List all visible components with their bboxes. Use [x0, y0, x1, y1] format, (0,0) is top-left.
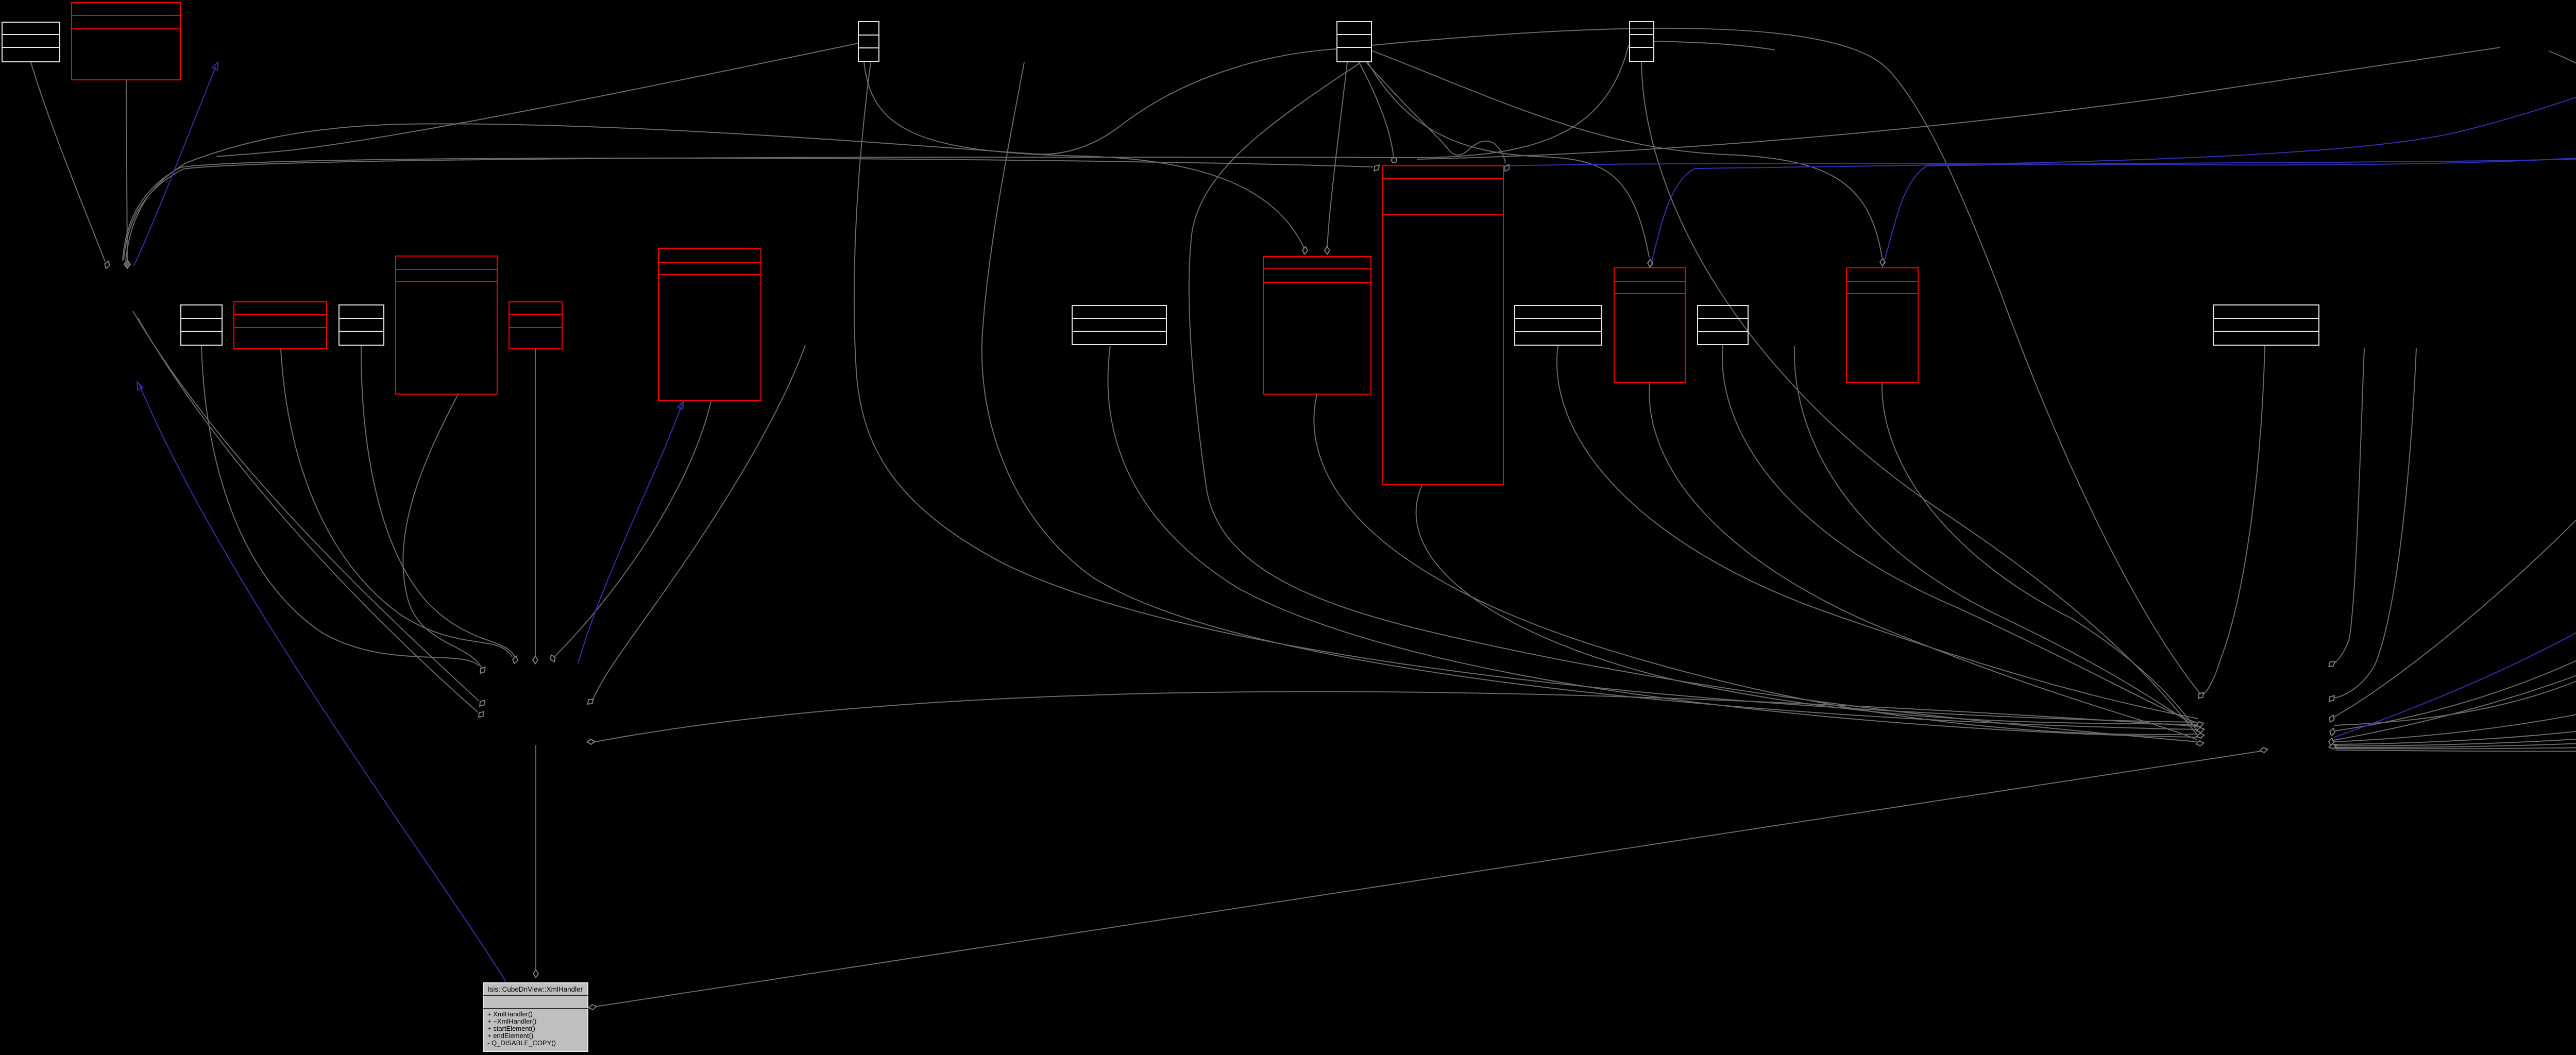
- edge box8 to IB2: [1314, 395, 2197, 735]
- open diamond: [2196, 740, 2204, 746]
- open diamond: [1324, 246, 1330, 254]
- edge boxD to IB2 via left detour: [1189, 63, 2197, 742]
- edge IB3 to hidden box d: [2334, 347, 2576, 746]
- edge long flat E3 to box9 top-left diamond: [123, 158, 1373, 261]
- class box 6 red tall: [658, 248, 761, 401]
- open diamond: [1648, 259, 1653, 267]
- class box 7 white: [1072, 305, 1166, 345]
- open diamond: [533, 970, 538, 978]
- class box 5 red: [509, 302, 562, 348]
- open diamond: [2329, 743, 2337, 750]
- edge hidden top box 4900 down arch to IB3: [2334, 51, 2576, 725]
- open diamond: [104, 260, 111, 269]
- open diamond: [1302, 246, 1308, 254]
- open diamond: [2196, 727, 2205, 734]
- svg-text:Isis::CubeDnView::XmlHandler: Isis::CubeDnView::XmlHandler: [488, 985, 583, 993]
- open diamond: [1372, 163, 1381, 173]
- svg-text:+ XmlHandler(): + XmlHandler(): [487, 1010, 533, 1018]
- edge boxD to box11 diamond via bundle: [1368, 62, 1649, 258]
- class box B top-left red: [72, 3, 180, 80]
- odot circle: [1392, 158, 1397, 163]
- edge IB3 to box17: [2335, 346, 2576, 748]
- class box C top narrow white: [858, 22, 879, 61]
- blue inheritance IB1 to box6 arrow: [578, 404, 682, 663]
- open diamond: [1503, 163, 1511, 173]
- edge IB5 to IB1 left diamond a: [133, 311, 479, 701]
- edge boxC to IB2 long sweep: [854, 62, 2197, 722]
- edge rising line r1 from bundle to IB4: [1417, 47, 2500, 159]
- class box A top-left white: [2, 22, 60, 62]
- class box D top white: [1337, 22, 1371, 62]
- edge box5 to IB1 vertical: [535, 349, 536, 657]
- edge IB1 to XmlHandler vertical: [535, 745, 536, 969]
- edge boxD wiggle to box9 top-right diamond: [1366, 62, 1505, 163]
- edge boxE right short stub: [1654, 41, 1775, 50]
- blue inheritance IB5 to IB0 arrow: [134, 66, 216, 266]
- class box 12 white: [1698, 305, 1748, 345]
- open diamond: [512, 655, 519, 664]
- blue box9 top-right to IB4: [1504, 64, 2576, 166]
- edge boxD to box8 top-right diamond: [1327, 62, 1347, 248]
- class box E top narrow white: [1630, 22, 1654, 61]
- open diamond: [2327, 659, 2336, 668]
- open diamond: [2260, 747, 2268, 753]
- open diamond: [2328, 738, 2334, 746]
- edge hidden stub 1563 to IB1 right diamond: [593, 345, 805, 699]
- edge long flat E4 to boxD left: [126, 49, 1336, 261]
- blue box13 to IB4 arrow: [1883, 65, 2576, 265]
- blue inheritance XmlHandler to IB5 arrow: [140, 385, 506, 982]
- edge IB5 to IB1 left diamond b: [138, 318, 478, 712]
- edge box2 to IB1: [281, 349, 512, 657]
- open diamond: [2195, 721, 2204, 728]
- open diamond: [2196, 691, 2205, 700]
- edge hidden stub 4589 down to IB3 top: [2334, 348, 2364, 663]
- edge IB3 to box16: [2333, 346, 2576, 740]
- edge boxA to aggregation diamond: [31, 62, 105, 262]
- class box 1 white: [181, 305, 222, 345]
- svg-text:+ ~XmlHandler(): + ~XmlHandler(): [487, 1017, 536, 1025]
- open diamond: [586, 697, 595, 706]
- class box 4 red tall: [396, 256, 497, 394]
- edge box6 to IB1: [555, 401, 711, 656]
- blue box11 to IB4 horizontal arrow: [1651, 50, 2576, 266]
- edge hidden top box 1988 to IB2: [982, 62, 2197, 729]
- edge IB3 to hidden box e: [2335, 347, 2576, 747]
- edge box7 to IB2: [1108, 346, 2197, 737]
- open diamond: [588, 1004, 597, 1010]
- blue open arrowhead: [677, 400, 686, 410]
- blue IB3 to IB4 arrow right: [2334, 64, 2576, 737]
- edge IB1 right to IB2 long line: [592, 692, 2197, 742]
- edge box9 to IB2: [1416, 485, 2197, 725]
- class box 13 red: [1846, 268, 1918, 383]
- edge boxB down to diamond: [126, 80, 127, 260]
- class box 14 white: [2213, 305, 2319, 345]
- class box 11 red: [1614, 268, 1685, 383]
- open diamond: [2327, 694, 2336, 703]
- edge boxD to odot circle on box9: [1359, 62, 1394, 157]
- edge IB3 to hidden box b: [2334, 347, 2576, 742]
- edge box12 to IB2: [1722, 345, 2198, 723]
- edge boxC to box8 top-left diamond: [864, 62, 1304, 248]
- svg-text:+ startElement(): + startElement(): [487, 1025, 535, 1032]
- svg-text:- Q_DISABLE_COPY(): - Q_DISABLE_COPY(): [487, 1039, 556, 1047]
- edge long flat e1 to boxE left: [124, 45, 1629, 260]
- edge boxD big arc to IB2: [1371, 28, 2200, 693]
- open diamond: [478, 699, 486, 708]
- open diamond: [2196, 733, 2205, 739]
- dense diamond cluster: [124, 260, 130, 268]
- blue open arrowhead: [134, 381, 143, 390]
- edge IB3 to hidden box a: [2334, 346, 2576, 731]
- edge box11 to IB2: [1649, 383, 2197, 740]
- open diamond: [1880, 258, 1886, 266]
- open diamond: [533, 656, 538, 664]
- open diamond: [2328, 714, 2335, 723]
- edge box14 to IB2: [2204, 346, 2265, 694]
- class box 8 red: [1263, 257, 1371, 394]
- edge hidden stub to IB2: [1794, 346, 2198, 727]
- open diamond: [549, 654, 556, 663]
- edge IB3 to box18: [2335, 347, 2576, 752]
- edge boxD to box13 diamond via bundle: [1371, 50, 1882, 258]
- open diamond: [478, 666, 487, 675]
- open diamond: [587, 739, 595, 745]
- class box 9 red tall: [1383, 166, 1503, 485]
- open diamond: [477, 710, 485, 719]
- edge box3 to IB1: [361, 346, 515, 658]
- edge IB3 to box15: [2334, 346, 2576, 717]
- edge boxE bottom to IB2: [1641, 62, 2198, 736]
- blue open arrowhead: [212, 61, 221, 70]
- edge XmlHandler right diamond to IB2 bottom: [596, 751, 2261, 1007]
- svg-text:+ endElement(): + endElement(): [487, 1032, 533, 1040]
- edge IB3 to hidden box c: [2334, 347, 2576, 744]
- edge box13 to IB2: [1882, 383, 2198, 731]
- class box 2 red: [234, 302, 327, 349]
- class box 3 white: [339, 305, 384, 345]
- class box 10 white: [1515, 305, 1602, 345]
- edge box1 to IB1: [201, 346, 479, 666]
- edge hidden stub 4690 down to IB3 top: [2334, 348, 2416, 698]
- edge box10 to IB2: [1557, 346, 2198, 719]
- edge box4 to IB1: [403, 395, 482, 668]
- edge boxC left line: [216, 43, 858, 157]
- open diamond: [2329, 727, 2336, 736]
